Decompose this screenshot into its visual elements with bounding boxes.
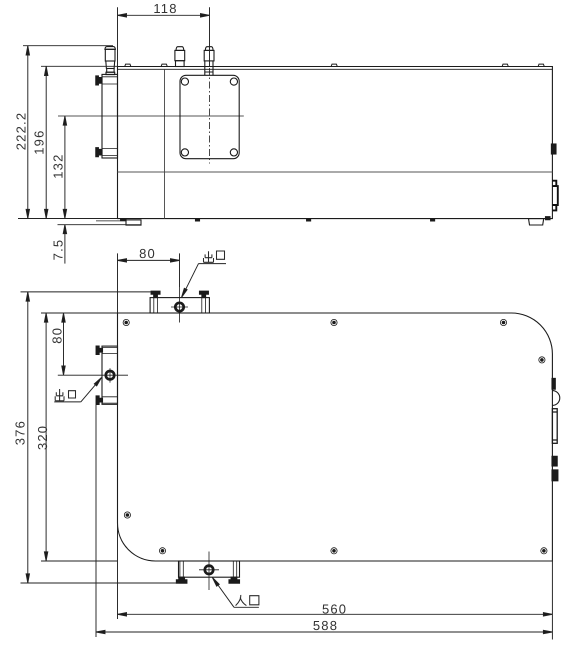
outlet port circle top bbox=[175, 303, 183, 311]
svg-text:222.2: 222.2 bbox=[14, 112, 29, 151]
leader 入口 bbox=[212, 578, 259, 608]
label 出口 left (drawn strokes) bbox=[55, 389, 75, 401]
dim 222.2 bbox=[18, 46, 118, 219]
flange bolt bottom bbox=[96, 148, 102, 157]
PLAN VIEW bbox=[58, 287, 560, 590]
svg-text:560: 560 bbox=[322, 602, 347, 617]
svg-text:80: 80 bbox=[139, 246, 156, 261]
dim 80 top bbox=[118, 253, 180, 313]
valve V1 on left flange bbox=[105, 47, 116, 75]
side view divider line bbox=[118, 171, 553, 173]
svg-text:376: 376 bbox=[13, 420, 28, 445]
bottom flange (inlet) bbox=[176, 552, 239, 591]
side view left flange plate bbox=[96, 74, 118, 158]
dim 7.5 bbox=[58, 225, 142, 264]
dim 80 left bbox=[62, 313, 65, 375]
left flange (outlet) bbox=[58, 346, 128, 404]
dim 588 bbox=[96, 405, 552, 637]
plan outline with rounded corners bbox=[118, 313, 553, 561]
label 出口 top (drawn strokes) bbox=[204, 251, 225, 262]
dim 560 bbox=[118, 520, 553, 640]
mounting plate with 4 holes bbox=[180, 75, 239, 158]
dim 132 bbox=[63, 116, 66, 218]
side view left foot bbox=[96, 219, 141, 225]
valve V2 bbox=[175, 47, 185, 67]
lid screw bumps bbox=[125, 64, 544, 66]
dim 196 bbox=[41, 66, 118, 218]
svg-text:588: 588 bbox=[313, 618, 338, 633]
top flange (outlet) bbox=[150, 287, 209, 323]
DIMENSIONS of side view bbox=[18, 7, 210, 263]
svg-text:80: 80 bbox=[49, 327, 64, 344]
dim 118 bbox=[118, 7, 210, 66]
svg-text:196: 196 bbox=[32, 129, 47, 154]
outlet port circle left bbox=[106, 371, 114, 379]
vertical centerline x=209.5 dash-dot bbox=[209, 68, 211, 164]
plan screw holes bbox=[123, 319, 547, 554]
valve V3 bbox=[204, 47, 214, 76]
label 入口 (drawn strokes) bbox=[236, 595, 259, 606]
leader 出口 left bbox=[54, 378, 101, 402]
dim 376 bbox=[21, 292, 180, 583]
side view right foot bbox=[529, 217, 551, 225]
svg-text:132: 132 bbox=[51, 153, 66, 178]
bottom dots bbox=[196, 219, 435, 221]
dim 320 bbox=[41, 313, 118, 561]
flange bolt top bbox=[96, 76, 102, 85]
side view seam line x=164.5 bbox=[164, 69, 166, 218]
inlet port circle bbox=[205, 566, 213, 574]
horizontal centerline y=116 bbox=[58, 115, 244, 117]
dimension texts bbox=[13, 1, 348, 633]
DIMENSIONS of plan view bbox=[21, 253, 553, 639]
right edge socket below divider bbox=[552, 181, 557, 211]
svg-text:7.5: 7.5 bbox=[50, 239, 65, 261]
svg-text:320: 320 bbox=[35, 425, 50, 450]
leader 出口 top bbox=[182, 264, 227, 298]
side view main box bbox=[118, 67, 553, 219]
right edge components plan bbox=[552, 378, 560, 480]
svg-text:118: 118 bbox=[153, 1, 177, 16]
right edge small connector above divider bbox=[551, 144, 556, 154]
